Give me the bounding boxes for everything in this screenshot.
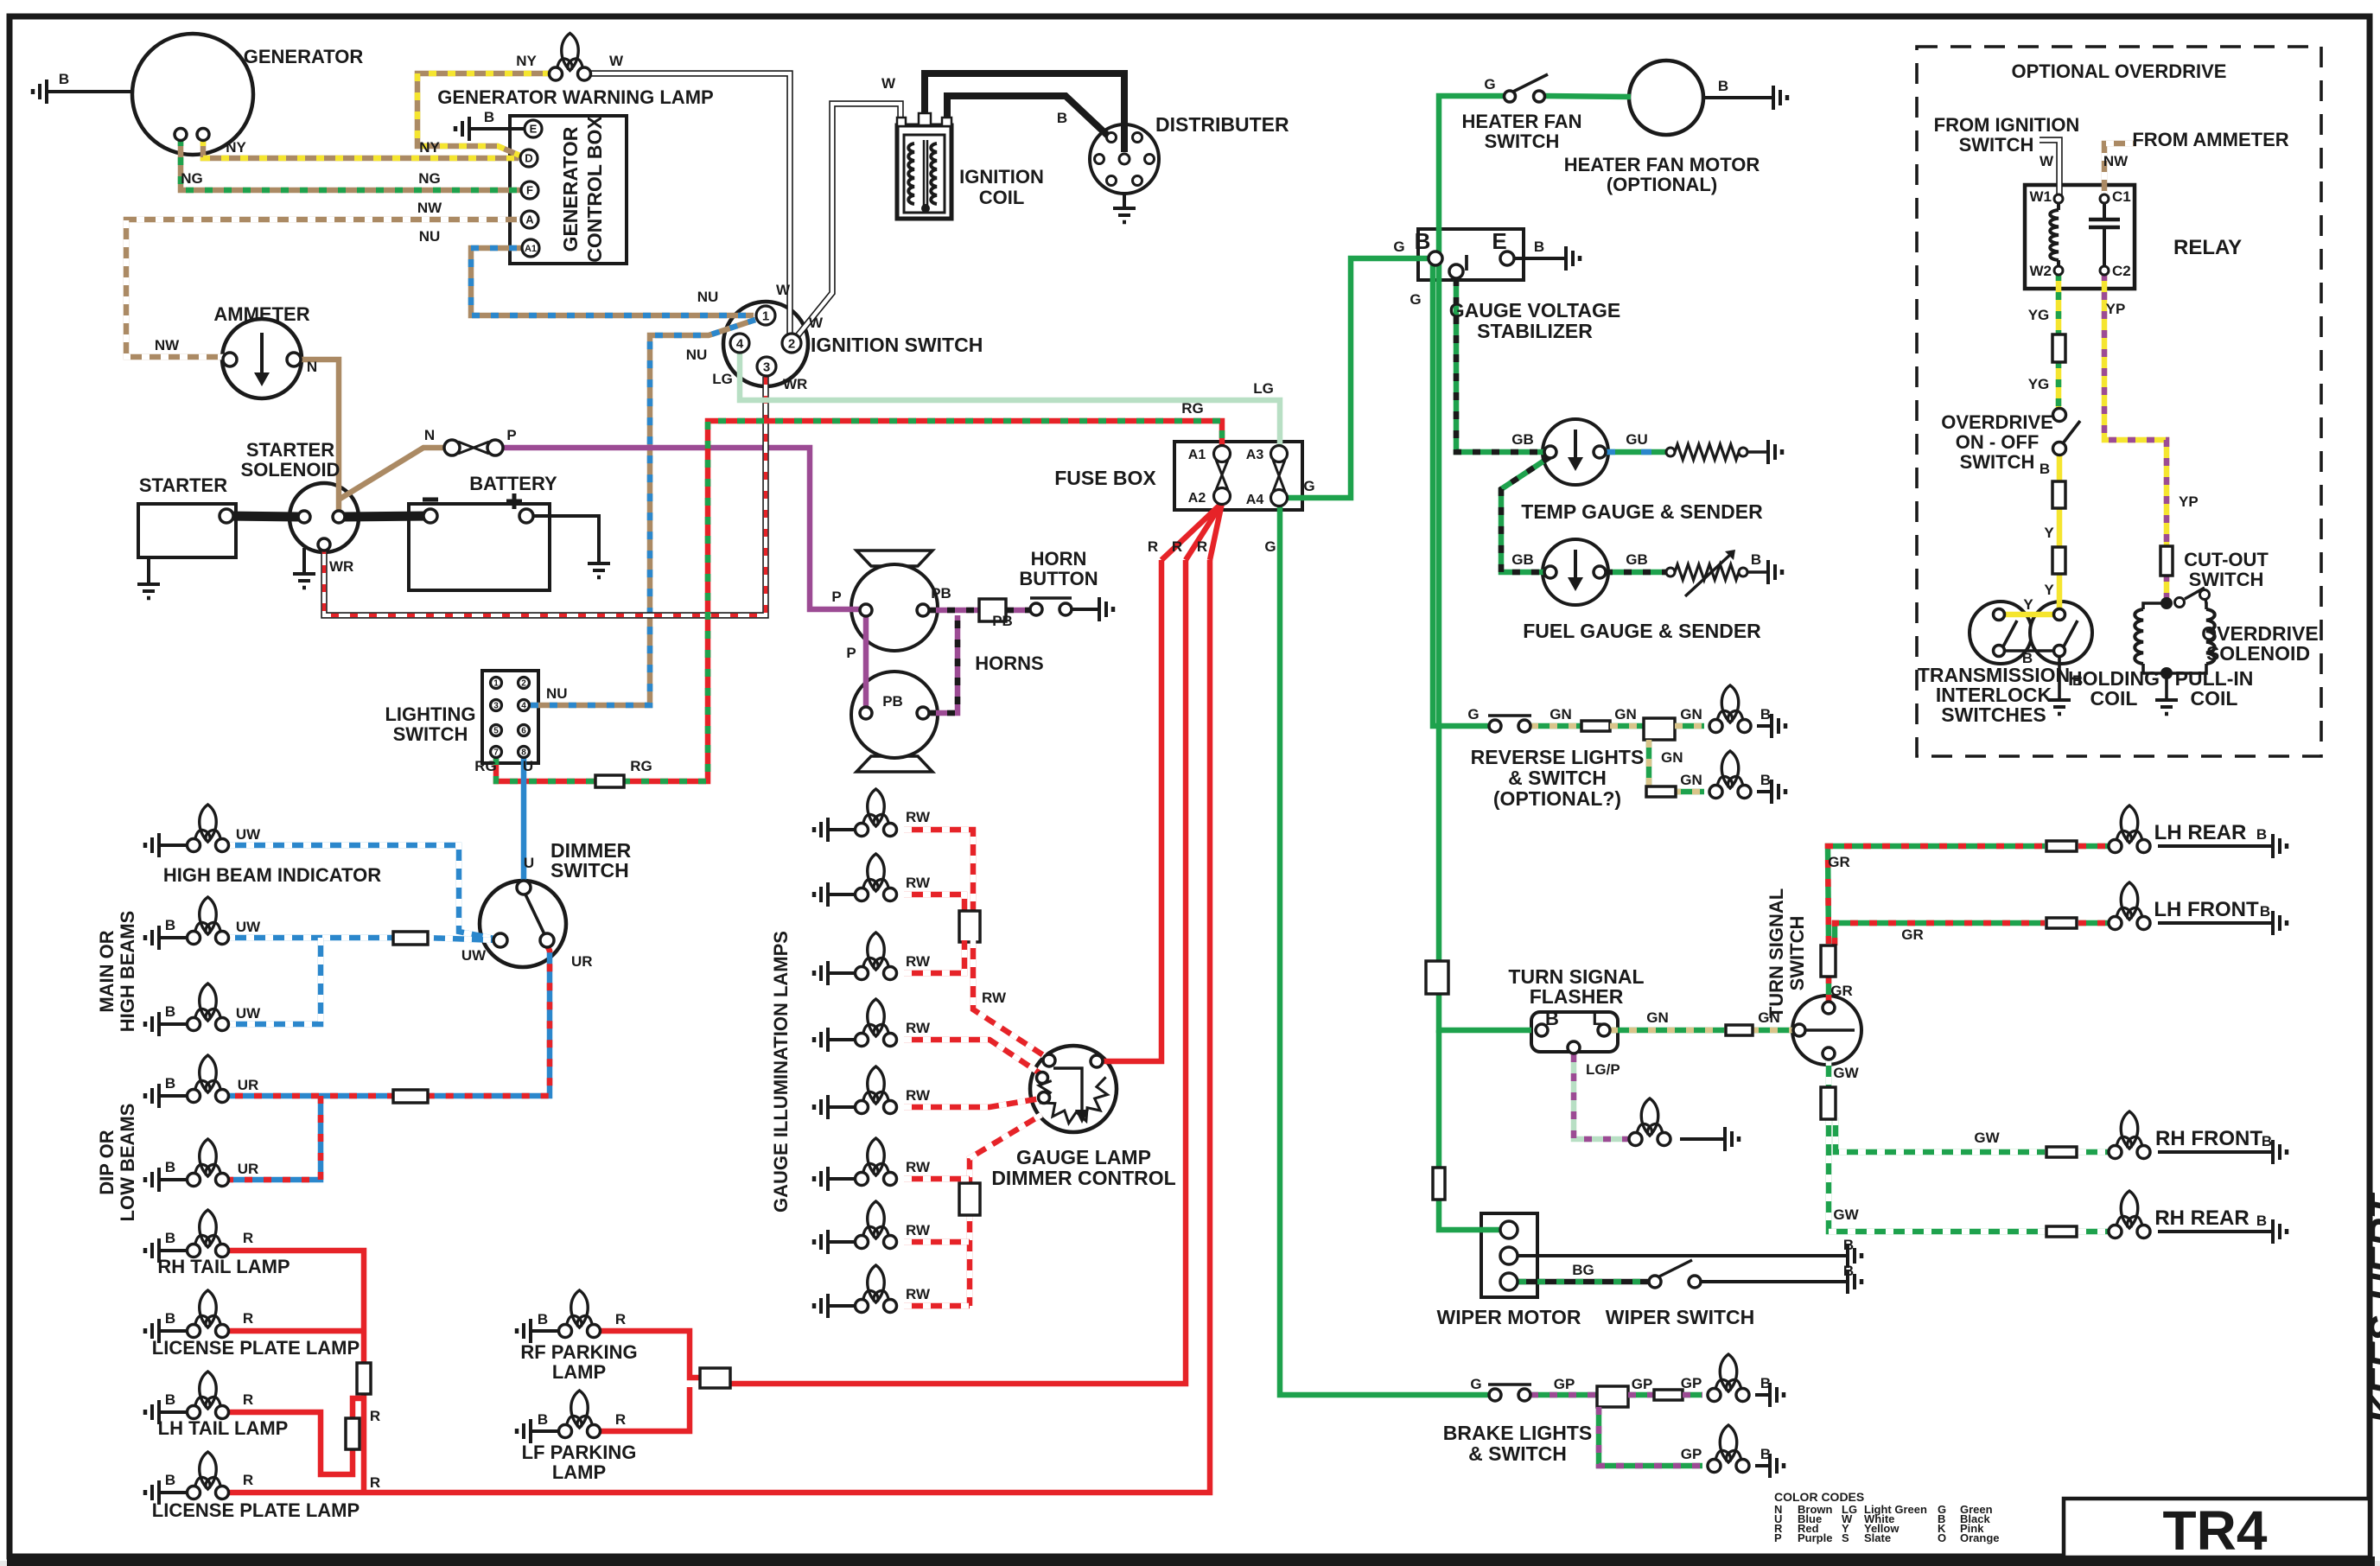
svg-text:Purple: Purple — [1798, 1531, 1832, 1544]
svg-text:B: B — [1751, 551, 1761, 568]
wire PB horn2 to junction — [928, 615, 958, 713]
fuse in GR wire LH front — [2046, 918, 2077, 928]
svg-text:UW: UW — [236, 826, 261, 843]
ground horn button — [1098, 597, 1101, 621]
holding coil — [2135, 609, 2143, 664]
wire G stabilizer branch down — [1433, 264, 1489, 726]
svg-text:RW: RW — [906, 1020, 931, 1036]
svg-text:REVERSE LIGHTS: REVERSE LIGHTS — [1471, 746, 1645, 768]
svg-text:B: B — [1760, 706, 1771, 723]
svg-text:LAMP: LAMP — [552, 1361, 606, 1383]
wire RW trunk lower — [970, 1115, 1041, 1185]
svg-text:P: P — [1774, 1531, 1782, 1544]
svg-text:4: 4 — [736, 336, 744, 351]
svg-text:B: B — [2256, 1213, 2267, 1229]
wire BG wiper motor to wiper switch — [1518, 1279, 1649, 1285]
svg-text:RW: RW — [906, 809, 931, 825]
starter box — [138, 504, 236, 557]
svg-text:R: R — [243, 1472, 253, 1488]
transmission interlock switch left body — [1970, 602, 2032, 664]
svg-text:N: N — [307, 359, 317, 375]
svg-text:LH FRONT: LH FRONT — [2154, 898, 2259, 921]
fuse in YP wire — [2160, 546, 2173, 576]
svg-text:B: B — [1843, 1263, 1854, 1279]
control box terminal A1 — [522, 239, 539, 257]
wire B RH rear ground — [2158, 1230, 2273, 1233]
turn signal flasher box — [1531, 1012, 1618, 1052]
fuse in GW wire RH front — [2046, 1147, 2077, 1157]
svg-text:TEMP GAUGE & SENDER: TEMP GAUGE & SENDER — [1521, 500, 1763, 523]
svg-text:R: R — [370, 1474, 380, 1491]
junction brake lights — [1597, 1386, 1628, 1407]
wire R parking lamps trunk to fuse box — [730, 560, 1186, 1384]
svg-text:B: B — [538, 1311, 548, 1327]
svg-text:B: B — [165, 1391, 175, 1408]
svg-text:YG: YG — [2028, 307, 2050, 323]
fuse in GN branch — [1646, 786, 1676, 797]
battery terminals — [423, 509, 437, 523]
wire NW from ammeter to relay C1 — [2104, 143, 2136, 199]
svg-text:C1: C1 — [2112, 188, 2131, 205]
generator control box — [510, 116, 627, 264]
wire B ignition coil cable to distributor — [925, 73, 1124, 152]
svg-text:DIP OR: DIP OR — [96, 1130, 118, 1195]
wire RW gauge illumination lamp 7 — [904, 1239, 970, 1245]
svg-text:A1: A1 — [1188, 448, 1206, 462]
wire R license plate lamp 2 trunk to fuse box — [227, 560, 1210, 1493]
fuse in tail lamp wire — [357, 1363, 371, 1394]
dip beam lamp 1 — [200, 1055, 217, 1092]
svg-text:IGNITION: IGNITION — [959, 166, 1044, 188]
svg-text:B: B — [59, 71, 69, 87]
wire G heater fan switch feed — [1439, 96, 1531, 1030]
svg-text:BATTERY: BATTERY — [469, 473, 557, 494]
wire B reverse lamp1 ground — [1757, 724, 1772, 728]
svg-text:I: I — [1463, 250, 1469, 276]
svg-text:W: W — [809, 315, 824, 331]
turn signal switch terminals — [1793, 1024, 1805, 1036]
distributor contacts — [1107, 133, 1117, 143]
wire YP relay C2 to cut-out switch — [2104, 273, 2167, 548]
svg-text:LIGHTING: LIGHTING — [385, 703, 475, 725]
svg-text:HORNS: HORNS — [975, 652, 1043, 674]
wiper switch — [1649, 1276, 1661, 1288]
fuse box terminal A1 — [1214, 446, 1231, 462]
svg-text:3: 3 — [763, 360, 770, 374]
fuse in G verticals — [1426, 961, 1448, 994]
svg-text:D: D — [525, 152, 532, 165]
wire RG lighting switch terminal 7 to fuse box A1 — [496, 757, 597, 781]
svg-text:(OPTIONAL): (OPTIONAL) — [1607, 174, 1717, 195]
svg-text:GENERATOR: GENERATOR — [559, 126, 582, 251]
ammeter terminals — [223, 353, 237, 366]
svg-text:R: R — [243, 1310, 253, 1327]
svg-text:R: R — [243, 1391, 253, 1408]
license plate lamp 2 — [200, 1452, 217, 1489]
ground fuel sender — [1766, 560, 1770, 584]
svg-text:WR: WR — [783, 376, 807, 392]
starter terminal — [220, 509, 233, 523]
svg-text:B: B — [1760, 1446, 1771, 1462]
svg-text:RW: RW — [906, 1286, 931, 1302]
wire RW gauge illumination lamp 4 — [904, 1040, 1041, 1074]
svg-text:B: B — [484, 109, 494, 125]
fuse in UW wire — [393, 932, 428, 945]
wire B control box E ground — [469, 127, 527, 130]
wire NG generator to control box F — [181, 138, 525, 190]
overdrive solenoid frame — [2143, 603, 2167, 609]
ground overdrive solenoid — [2160, 667, 2173, 679]
wire B interlock bottom terminals — [2004, 649, 2054, 652]
svg-text:LH TAIL LAMP: LH TAIL LAMP — [158, 1417, 289, 1439]
svg-text:Y: Y — [2044, 582, 2054, 598]
svg-text:GR: GR — [1830, 983, 1853, 999]
ignition switch terminal 1 — [756, 306, 775, 325]
svg-text:HEATER FAN MOTOR: HEATER FAN MOTOR — [1564, 154, 1760, 175]
svg-text:GN: GN — [1680, 772, 1702, 788]
svg-text:N: N — [424, 427, 435, 443]
dimmer switch terminals — [517, 881, 531, 894]
wire black starter to solenoid — [226, 516, 299, 517]
heater fan switch — [1505, 91, 1516, 102]
generator body — [132, 34, 253, 155]
wire R rh tail lamp trunk — [227, 1251, 364, 1363]
svg-text:GB: GB — [1511, 431, 1534, 448]
ground heater fan motor — [1772, 86, 1775, 110]
wire GP brake branch to lamp 2 — [1599, 1407, 1702, 1466]
svg-text:LF PARKING: LF PARKING — [522, 1442, 637, 1463]
battery box — [409, 504, 550, 590]
wire RW gauge illumination lamp 6 — [904, 1176, 970, 1182]
svg-text:NG: NG — [181, 170, 203, 187]
wiper motor terminals — [1500, 1221, 1518, 1238]
svg-text:B: B — [2262, 1133, 2272, 1149]
wire RW gauge illumination lamp 5 — [904, 1098, 1040, 1107]
svg-text:COIL: COIL — [979, 187, 1025, 208]
svg-text:GB: GB — [1626, 551, 1648, 568]
svg-text:A2: A2 — [1188, 491, 1206, 506]
dimmer switch body — [480, 881, 566, 967]
fuel gauge terminals — [1544, 566, 1556, 578]
transmission interlock switch right body — [2030, 602, 2092, 664]
wire B generator ground — [47, 90, 132, 93]
svg-text:SWITCH: SWITCH — [1960, 451, 2035, 473]
wire GB fuel gauge to sender — [1605, 570, 1666, 576]
license plate lamp 1 — [200, 1290, 217, 1327]
transmission interlock terminals — [1994, 609, 2005, 621]
fuse in UR wire — [393, 1090, 428, 1103]
ground starter solenoid — [302, 548, 306, 572]
control box terminal E — [525, 120, 542, 137]
svg-text:R: R — [1148, 538, 1158, 555]
svg-text:SWITCH: SWITCH — [1485, 130, 1560, 152]
fuel sender rheostat — [1666, 568, 1675, 576]
wire RW gauge illumination lamp 1 — [904, 830, 973, 913]
wire Y interlock top terminals — [2004, 612, 2054, 618]
control box terminal D — [520, 150, 538, 167]
svg-text:LOW BEAMS: LOW BEAMS — [117, 1104, 138, 1222]
svg-text:R: R — [1172, 538, 1182, 555]
wire NW control box A to ammeter — [126, 220, 525, 357]
fuse in RG wire — [595, 775, 624, 787]
svg-text:TR4: TR4 — [2163, 1499, 2268, 1562]
svg-text:P: P — [846, 645, 856, 661]
svg-text:UR: UR — [238, 1077, 259, 1093]
svg-text:U: U — [523, 758, 533, 774]
svg-text:SWITCH: SWITCH — [393, 723, 468, 745]
svg-text:G: G — [1410, 291, 1421, 308]
svg-text:G: G — [1467, 706, 1479, 723]
svg-text:NW: NW — [417, 200, 442, 216]
wire UW main beam branch — [227, 938, 321, 1024]
rh tail lamp — [200, 1210, 217, 1247]
horn button fuse — [979, 599, 1006, 621]
svg-text:RG: RG — [474, 758, 497, 774]
lighting switch terminals — [491, 678, 502, 689]
turn signal switch body — [1792, 996, 1861, 1065]
svg-text:6: 6 — [521, 727, 526, 736]
gauge voltage stabilizer box — [1418, 229, 1524, 280]
svg-text:R: R — [370, 1408, 380, 1424]
lever interlock right — [2064, 621, 2078, 646]
wire GN flasher L to turn signal switch — [1610, 1028, 1728, 1034]
gauge illumination lamps — [868, 789, 885, 826]
fuse box terminal A3 — [1271, 446, 1288, 462]
wire GR turn signal switch to LH lamps — [1826, 947, 1832, 1003]
svg-text:GP: GP — [1554, 1376, 1575, 1392]
svg-text:R: R — [615, 1311, 626, 1327]
svg-text:DISTRIBUTER: DISTRIBUTER — [1155, 113, 1289, 136]
wire RW gauge illumination lamp 3 — [904, 940, 964, 973]
svg-text:B: B — [165, 917, 175, 933]
svg-text:ON - OFF: ON - OFF — [1956, 431, 2040, 453]
svg-text:TURN SIGNAL: TURN SIGNAL — [1766, 888, 1787, 1018]
svg-text:1: 1 — [493, 679, 499, 689]
svg-text:RW: RW — [906, 953, 931, 970]
svg-text:LG: LG — [1253, 380, 1274, 397]
fuse box fuse A1-A2 — [1216, 460, 1228, 490]
wiper motor box — [1481, 1213, 1537, 1297]
wire B brake lamp2 ground — [1755, 1464, 1770, 1467]
svg-text:NY: NY — [226, 139, 246, 156]
svg-text:W: W — [881, 75, 896, 92]
svg-text:7: 7 — [493, 748, 499, 758]
fuel gauge body — [1543, 539, 1608, 605]
starter solenoid body — [290, 483, 359, 552]
svg-text:GP: GP — [1681, 1446, 1702, 1462]
svg-text:LICENSE PLATE LAMP: LICENSE PLATE LAMP — [152, 1499, 360, 1521]
fuse in GW wire RH rear — [2046, 1226, 2077, 1237]
gauge lamp dimmer control internals — [1053, 1068, 1082, 1113]
svg-text:YP: YP — [2106, 301, 2126, 317]
wire B stabilizer E ground — [1514, 257, 1566, 260]
svg-text:GN: GN — [1614, 706, 1637, 723]
fuse in lh tail lamp wire — [346, 1418, 360, 1449]
svg-text:B: B — [165, 1075, 175, 1092]
svg-text:R: R — [243, 1230, 253, 1246]
svg-text:HIGH BEAMS: HIGH BEAMS — [117, 911, 138, 1033]
wire PB horn1 to horn button fuse — [928, 608, 979, 614]
svg-text:B: B — [1760, 772, 1771, 788]
wire G fuse box A4 to gauge voltage stabilizer B — [1286, 258, 1430, 498]
svg-text:FUEL GAUGE & SENDER: FUEL GAUGE & SENDER — [1523, 620, 1761, 642]
distributor body — [1090, 124, 1159, 194]
wire B wiper motor ground — [1518, 1254, 1848, 1257]
svg-text:RW: RW — [906, 875, 931, 891]
wire GU temp gauge to sender — [1605, 449, 1666, 455]
svg-text:PB: PB — [992, 613, 1013, 629]
fuse in GN wire — [1581, 721, 1610, 731]
svg-text:3: 3 — [493, 702, 499, 711]
svg-text:R: R — [615, 1411, 626, 1428]
wire Y overdrive switch to interlock — [2057, 454, 2063, 483]
svg-text:GR: GR — [1828, 854, 1850, 870]
svg-text:LG/P: LG/P — [1586, 1061, 1620, 1078]
svg-text:Orange: Orange — [1960, 1531, 2000, 1544]
svg-text:GAUGE VOLTAGE: GAUGE VOLTAGE — [1449, 299, 1621, 321]
relay capacitor C1-C2 — [2103, 202, 2106, 218]
svg-text:LAMP: LAMP — [552, 1461, 606, 1483]
svg-text:B: B — [1545, 1008, 1559, 1029]
svg-text:B: B — [1718, 78, 1728, 94]
heater fan motor body — [1629, 60, 1703, 135]
fuse in RW trunk lower — [959, 1183, 980, 1215]
svg-text:GR: GR — [1901, 926, 1924, 943]
reverse lamp 1 — [1721, 685, 1739, 723]
wire WR ignition switch terminal 3 to starter solenoid — [324, 377, 766, 615]
svg-text:COIL: COIL — [2090, 687, 2138, 710]
turn signal switch lever — [1806, 1028, 1855, 1032]
junction parking lamps — [700, 1368, 730, 1388]
svg-text:F: F — [526, 184, 533, 197]
fuse box terminal A4 — [1271, 490, 1288, 506]
wire NU control box A1 to ignition switch terminal 1 — [471, 248, 754, 315]
fuse in GR wire LH rear — [2046, 841, 2077, 851]
svg-text:OPTIONAL OVERDRIVE: OPTIONAL OVERDRIVE — [2012, 60, 2227, 82]
svg-text:RW: RW — [906, 1087, 931, 1104]
generator terminals — [175, 129, 187, 141]
svg-text:RW: RW — [982, 990, 1007, 1006]
svg-text:NW: NW — [2103, 153, 2129, 169]
brake lamp 2 — [1720, 1425, 1737, 1462]
wire G fuse box A4 to brake light switch — [1280, 505, 1489, 1395]
fuse box body — [1174, 442, 1302, 510]
svg-text:GN: GN — [1661, 749, 1683, 766]
wire N starter solenoid to inline connector — [339, 448, 447, 500]
svg-text:E: E — [530, 123, 538, 136]
horn 1 body — [856, 551, 932, 566]
svg-text:Slate: Slate — [1864, 1531, 1891, 1544]
svg-text:B: B — [1415, 228, 1431, 254]
wire RW trunk to dimmer control — [973, 940, 1047, 1058]
svg-text:4: 4 — [521, 702, 526, 711]
svg-text:GN: GN — [1550, 706, 1572, 723]
svg-text:& SWITCH: & SWITCH — [1468, 1442, 1567, 1465]
wire B LH rear ground — [2158, 844, 2273, 848]
svg-text:SOLENOID: SOLENOID — [241, 459, 340, 481]
turn indicator lamp — [1641, 1098, 1658, 1136]
svg-text:G: G — [1303, 478, 1314, 494]
RH front lamp — [2121, 1111, 2138, 1149]
wire GP brake switch to junction — [1530, 1392, 1599, 1398]
wire GN reverse branch to lamp 2 — [1649, 740, 1704, 792]
svg-text:WIPER SWITCH: WIPER SWITCH — [1606, 1306, 1755, 1328]
svg-text:A1: A1 — [525, 244, 537, 254]
svg-text:RW: RW — [906, 1159, 931, 1175]
svg-text:COLOR CODES: COLOR CODES — [1774, 1490, 1864, 1504]
svg-text:BUTTON: BUTTON — [1019, 568, 1098, 589]
wire R license plate lamp 1 — [227, 1328, 364, 1334]
svg-text:KEES-HERT: KEES-HERT — [2362, 1192, 2380, 1424]
svg-text:FROM AMMETER: FROM AMMETER — [2132, 129, 2288, 150]
svg-text:G: G — [1484, 76, 1495, 92]
wire NY generator to control box D — [203, 138, 519, 158]
ground starter — [147, 557, 150, 582]
svg-text:(OPTIONAL?): (OPTIONAL?) — [1493, 787, 1621, 810]
svg-text:IGNITION SWITCH: IGNITION SWITCH — [811, 334, 983, 356]
temp sender resistor — [1666, 448, 1675, 456]
svg-text:GP: GP — [1681, 1375, 1702, 1391]
fuel gauge needle — [1574, 550, 1577, 586]
svg-text:HEATER FAN: HEATER FAN — [1462, 111, 1582, 132]
svg-text:B: B — [165, 1003, 175, 1020]
temp gauge terminals — [1544, 446, 1556, 458]
svg-text:A4: A4 — [1246, 493, 1264, 507]
svg-text:RELAY: RELAY — [2173, 236, 2242, 259]
wire black solenoid to battery — [344, 516, 429, 517]
svg-text:NY: NY — [419, 139, 440, 156]
svg-text:SWITCH: SWITCH — [1786, 916, 1808, 991]
wire GN reverse switch to lamp 1 — [1530, 723, 1583, 729]
svg-text:MAIN OR: MAIN OR — [96, 930, 118, 1012]
svg-text:UR: UR — [571, 953, 593, 970]
dimmer switch lever — [525, 894, 544, 934]
svg-text:RH FRONT: RH FRONT — [2155, 1127, 2262, 1150]
ignition switch terminal 4 — [730, 334, 749, 353]
wire UR dip beam branch — [227, 1096, 321, 1180]
turn signal flasher terminals — [1536, 1024, 1548, 1036]
svg-text:B: B — [165, 1310, 175, 1327]
control box terminal F — [521, 181, 538, 199]
svg-text:RH REAR: RH REAR — [2154, 1206, 2249, 1230]
svg-text:B: B — [165, 1230, 175, 1246]
ground stabilizer E — [1564, 246, 1568, 271]
LH rear lamp — [2121, 805, 2138, 843]
svg-text:RW: RW — [906, 1222, 931, 1238]
svg-text:BRAKE LIGHTS: BRAKE LIGHTS — [1443, 1422, 1593, 1444]
horn button — [1030, 603, 1042, 615]
fuse in RW trunk upper — [959, 911, 980, 942]
svg-text:AMMETER: AMMETER — [213, 303, 309, 325]
wire LG ignition switch terminal 4 to fuse box A3 — [740, 351, 1280, 448]
wire GW turn signal switch to RH lamps — [1826, 1058, 1832, 1089]
generator warning lamp — [562, 34, 579, 71]
svg-text:GAUGE LAMP: GAUGE LAMP — [1016, 1146, 1151, 1168]
svg-text:B: B — [165, 1159, 175, 1175]
svg-text:G: G — [1393, 239, 1404, 255]
rf parking lamp — [571, 1290, 589, 1327]
svg-text:5: 5 — [493, 727, 499, 736]
svg-text:W: W — [2040, 153, 2054, 169]
wire LG/P flasher to indicator lamp — [1574, 1054, 1630, 1139]
horn 1 terminals — [860, 604, 872, 616]
fuse in Y wire lower — [2052, 547, 2065, 574]
svg-text:GENERATOR WARNING LAMP: GENERATOR WARNING LAMP — [437, 86, 713, 108]
gauge voltage stabilizer terminals — [1429, 251, 1442, 265]
temp gauge needle — [1574, 430, 1577, 466]
svg-text:C2: C2 — [2112, 263, 2131, 279]
wire R lf parking lamp — [600, 1387, 690, 1431]
